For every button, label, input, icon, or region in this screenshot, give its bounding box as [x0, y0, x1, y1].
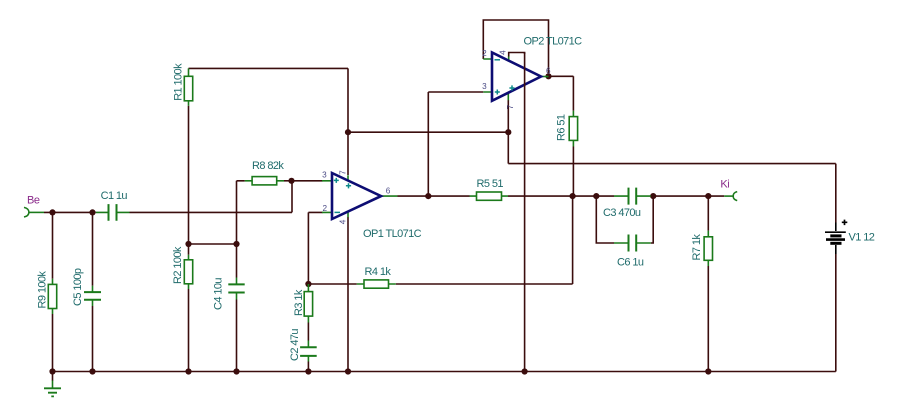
capacitor C3 [603, 188, 651, 219]
svg-text:C3 470u: C3 470u [603, 207, 641, 219]
wire R4 right to feedback column [396, 196, 573, 284]
wire OP2 V+ pin down to rail corner [508, 100, 836, 223]
wire C4 column [236, 244, 238, 372]
wire node A up to OP2 pin3 [428, 92, 483, 196]
svg-text:C1 1u: C1 1u [101, 190, 128, 202]
wire Be input row [44, 211, 96, 213]
wire C1 to OP1 pin3 jog [130, 181, 323, 213]
wire OP1 pin4 down to rail [347, 217, 349, 372]
resistor R6 [556, 111, 578, 147]
wire R7 column [707, 196, 709, 371]
wire OP1 pin2 to R3/R4 node [308, 212, 356, 284]
wire R2 bottom to rail [188, 289, 190, 372]
resistor R8 [245, 160, 285, 185]
svg-text:6: 6 [546, 67, 551, 76]
wire OP2 output to R6 top [549, 76, 574, 111]
svg-text:3: 3 [482, 82, 487, 91]
junction node bias R2 [185, 241, 191, 247]
wire OP2 V- column to ground rail [524, 53, 526, 372]
junction rail C5 [89, 368, 95, 374]
junction rail OP1 pin4 [345, 368, 351, 374]
resistor R3 [293, 284, 313, 323]
svg-text:3: 3 [322, 171, 327, 180]
junction node V+ OP1 [345, 129, 351, 135]
wire C3 right node to R7 node to Ki [651, 195, 724, 197]
svg-text:Be: Be [27, 195, 40, 207]
svg-text:R5 51: R5 51 [477, 178, 504, 190]
svg-text:R9 100k: R9 100k [37, 271, 49, 309]
resistor R4 [357, 266, 396, 288]
wire OP2 V- pin jog down to ground rail [509, 53, 525, 58]
junction rail C4 [233, 368, 239, 374]
junction node R3/R4 [305, 281, 311, 287]
wire R1 bottom to R2 top column [188, 106, 190, 255]
capacitor C5 [72, 268, 101, 306]
svg-text:R8 82k: R8 82k [252, 160, 284, 172]
junction rail R9 [49, 368, 55, 374]
terminal Be [24, 195, 44, 218]
wire ground stub [52, 372, 54, 381]
capacitor C4 [213, 278, 245, 311]
terminal Ki [720, 179, 737, 201]
svg-text:2: 2 [322, 204, 327, 213]
resistor R1 [173, 63, 193, 106]
wire OP1 output to R5 [398, 195, 470, 197]
svg-text:R1 100k: R1 100k [173, 63, 185, 101]
wire OP2 feedback loop [483, 20, 548, 76]
junction node R7 top [705, 193, 711, 199]
junction node OP1 pin3 [288, 178, 294, 184]
capacitor C2 [289, 329, 317, 362]
svg-text:Ki: Ki [720, 179, 729, 191]
junction node R6 bottom [570, 193, 576, 199]
junction node V+ OP2 [505, 129, 511, 135]
junction node OP2 out [545, 73, 551, 79]
wire R6 bottom to output node [572, 147, 574, 197]
svg-text:6: 6 [386, 187, 391, 196]
wire C5 column [92, 212, 94, 371]
junction node C3 right [650, 193, 656, 199]
svg-text:R3 1k: R3 1k [293, 289, 305, 316]
svg-text:C2 47u: C2 47u [289, 329, 301, 361]
resistor R5 [470, 178, 509, 200]
svg-text:C5 100p: C5 100p [72, 268, 84, 306]
resistor R7 [691, 231, 713, 266]
junction rail OP2 pin4 [522, 368, 528, 374]
junction node C5 top [89, 209, 95, 215]
wire R8 right lead to pin3 node [284, 180, 292, 182]
svg-text:R6 51: R6 51 [556, 114, 568, 141]
wire C2 bottom to rail [307, 362, 309, 372]
resistor R2 [172, 246, 193, 289]
svg-text:OP2 TL071C: OP2 TL071C [524, 35, 583, 47]
svg-text:R7 1k: R7 1k [691, 234, 703, 261]
junction node Be/R9 [49, 209, 55, 215]
svg-text:4: 4 [499, 50, 508, 55]
svg-text:7: 7 [339, 170, 348, 175]
svg-text:4: 4 [338, 219, 347, 224]
wire R8 left corner down to bias node [237, 181, 245, 244]
svg-text:7: 7 [506, 104, 515, 109]
wire R9 column [52, 212, 54, 371]
junction node bias C4 [233, 241, 239, 247]
svg-text:V1 12: V1 12 [849, 232, 875, 244]
svg-text:C6 1u: C6 1u [617, 257, 644, 269]
ground [44, 381, 61, 397]
svg-text:R4 1k: R4 1k [365, 266, 392, 278]
op-amp OP1 [322, 170, 422, 240]
svg-text:C4 10u: C4 10u [213, 278, 225, 310]
wire C6 parallel loop [596, 196, 653, 243]
wire battery bottom to rail [835, 254, 837, 372]
wire R3 to C2 segment [307, 323, 309, 341]
op-amp OP2 [482, 35, 582, 109]
resistor R9 [37, 271, 57, 314]
junction node C3 left [593, 193, 599, 199]
svg-text:R2 100k: R2 100k [172, 246, 184, 284]
battery V1 [825, 220, 875, 254]
wire R5 right to C3 node [508, 195, 614, 197]
junction rail C2 [305, 368, 311, 374]
junction node A OP1 out [425, 193, 431, 199]
capacitor C6 [614, 235, 651, 269]
svg-text:OP1 TL071C: OP1 TL071C [363, 228, 422, 240]
junction rail R7 [705, 368, 711, 374]
wire ground rail [53, 371, 836, 373]
capacitor C1 [96, 190, 130, 221]
wire bias node row R2 to C4 [189, 243, 237, 245]
wire V+ from R1 top to OP1 pin7 column [189, 68, 349, 175]
svg-text:2: 2 [482, 49, 487, 58]
wire V+ horizontal to OP2 supply column [348, 131, 508, 133]
junction rail R2 [185, 368, 191, 374]
